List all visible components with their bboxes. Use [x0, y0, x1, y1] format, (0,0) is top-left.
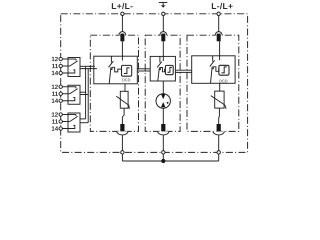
svg-text:14: 14 [51, 126, 58, 133]
S-curve inside DCD box U1 [124, 68, 130, 74]
plug-in contact bottom module 1 [117, 124, 128, 135]
DCD electronics box U1 [122, 65, 132, 76]
signal bus vertical wire a [85, 66, 87, 119]
wire terminal L-/L+ to plug contact module 3 [218, 16, 220, 32]
plug-in contact top module 2 [160, 32, 167, 42]
wire plug 1 to SCI unit 1 [121, 41, 123, 56]
svg-text:12: 12 [51, 84, 58, 91]
plug-in contact bottom module 3 [213, 124, 224, 135]
SCI switching unit U3 (module 3) [192, 56, 235, 84]
gas discharge tube F2 (module 2) [156, 94, 170, 108]
svg-text:DCD: DCD [122, 77, 131, 82]
svg-text:11: 11 [52, 63, 59, 70]
terminal 14 K1 [59, 71, 62, 74]
module 1 boundary [90, 35, 138, 131]
terminal L-/L+ [217, 12, 220, 15]
link squiggle U1 [110, 67, 121, 72]
enclosure boundary (dash-dot device outline) [61, 14, 248, 153]
S-curve inside DCD box U2 [167, 67, 172, 72]
bottom terminal 3 [217, 151, 220, 154]
plug-in contact top module 1 [119, 32, 126, 42]
terminal 12 K2 [59, 85, 62, 88]
wire plug 3 to SCI unit 3 [219, 41, 221, 56]
varistor RV3 (module 3) [211, 91, 226, 109]
wire bottom plug 1 to bottom terminal 1 [121, 135, 123, 151]
ground symbol (earth above PE terminal) [159, 3, 168, 8]
remote signalling contact K1 (module 1) [62, 58, 80, 77]
stub K2 to bus b [80, 94, 88, 96]
terminal 12 K3 [59, 113, 62, 116]
signal bus wire a (K1 to U1 upper) [80, 65, 95, 67]
DCD electronics box U3 [219, 65, 229, 75]
wire bottom terminal 3 to common bus [218, 154, 220, 161]
wire RV3 to bottom plug 3 [218, 108, 221, 124]
wire U2 to gas discharge tube F2 [162, 81, 164, 94]
terminal 12 K1 [59, 57, 62, 60]
signal link wire U1 to U2 lower [137, 70, 150, 72]
svg-text:L+/L-: L+/L- [111, 1, 133, 11]
SCI switching unit U2 (module 2) [150, 56, 175, 81]
plug-in contact top module 3 [215, 32, 222, 42]
S-curve inside DCD box U3 [221, 67, 226, 73]
stub K3 to bus a [80, 118, 86, 120]
bottom terminal 1 [121, 151, 124, 154]
link squiggle U2 [159, 68, 166, 72]
terminal 11 K3 [59, 120, 62, 123]
varistor RV1 (module 1) [116, 91, 129, 109]
entry stub U1 [121, 56, 123, 60]
wire bottom terminal 1 to common bus [121, 154, 123, 161]
signal bus vertical wire b [87, 69, 89, 123]
entry stub U2 [162, 56, 164, 61]
module 3 boundary [187, 35, 239, 131]
terminal 14 K3 [59, 127, 62, 130]
disconnector switch inside U3 [210, 56, 215, 84]
stub K2 to bus a [80, 91, 86, 93]
svg-text:14: 14 [51, 98, 58, 105]
wire U1 to varistor RV1 [124, 84, 126, 92]
svg-text:L-/L+: L-/L+ [211, 1, 233, 11]
wire bottom plug 3 to bottom terminal 3 [218, 135, 220, 151]
svg-text:12: 12 [51, 56, 58, 63]
svg-text:14: 14 [51, 70, 58, 77]
signal link wire U2 to U3 upper [175, 69, 191, 71]
common bus wire [122, 160, 218, 162]
terminal 11 K2 [59, 92, 62, 95]
wire terminal PE to plug contact module 2 [162, 16, 164, 32]
wire RV1 to bottom plug 1 [122, 108, 124, 124]
svg-text:DCD: DCD [219, 78, 228, 83]
stub K3 to bus b [80, 122, 88, 124]
svg-text:11: 11 [52, 119, 59, 126]
module 2 boundary [145, 35, 180, 131]
plug-in contact bottom module 2 [158, 124, 169, 135]
signal link wire U1 to U2 upper [137, 68, 150, 70]
disconnector switch inside U1 [109, 56, 114, 84]
signal link wire U2 to U3 lower [175, 71, 191, 73]
wire terminal L+/L- to plug contact module 1 [121, 16, 123, 32]
link squiggle U3 [212, 67, 219, 72]
remote signalling contact K3 (module 3) [62, 113, 80, 132]
wire F2 to bottom plug 2 [162, 108, 164, 124]
wire bottom terminal 2 to common bus [162, 154, 164, 161]
entry stub U3 [219, 56, 221, 60]
terminal 11 K1 [59, 64, 62, 67]
junction common bus [161, 159, 165, 163]
disconnector switch inside U2 [157, 56, 162, 81]
terminal 14 K2 [59, 99, 62, 102]
wire plug 2 to SCI unit 2 [162, 41, 164, 56]
remote signalling contact K2 (module 2) [62, 85, 80, 104]
terminal PE [162, 12, 165, 15]
wire bottom plug 2 to bottom terminal 2 [162, 135, 164, 151]
bottom terminal 2 [162, 151, 165, 154]
terminal L+/L- [121, 12, 124, 15]
wire U3 to varistor RV3 [219, 83, 221, 91]
DCD electronics box U2 [165, 65, 173, 74]
svg-text:11: 11 [52, 91, 59, 98]
SCI switching unit U1 (module 1) [94, 56, 138, 84]
signal bus wire b (K1 to U1 lower) [80, 68, 97, 70]
svg-text:12: 12 [51, 112, 58, 119]
